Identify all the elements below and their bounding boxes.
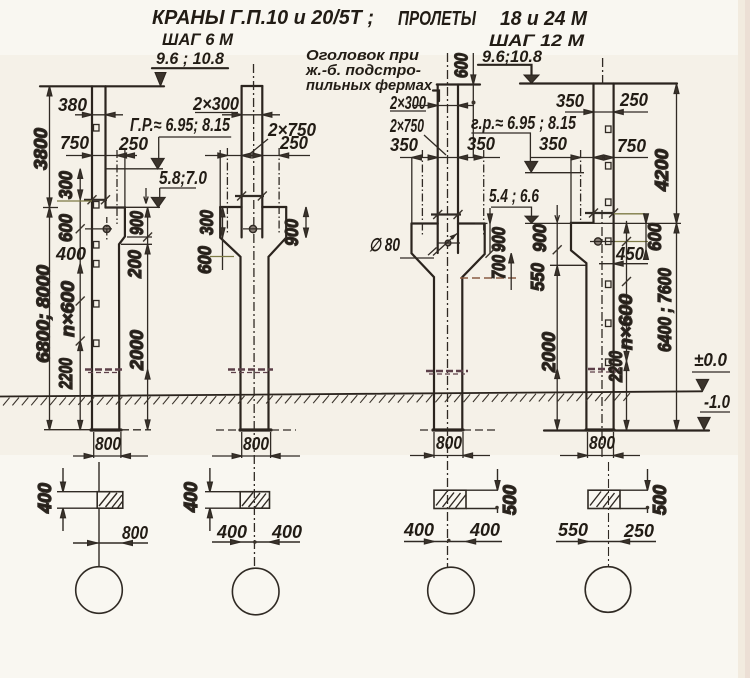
svg-text:9.6;10.8: 9.6;10.8 (482, 47, 543, 66)
ground hatching (3, 393, 630, 405)
svg-text:2×750: 2×750 (389, 116, 424, 136)
right dim n x 600 / 2200 (626, 221, 628, 430)
svg-text:2200: 2200 (56, 358, 76, 390)
svg-text:г.р.≈ 6.95 ; 8.15: г.р.≈ 6.95 ; 8.15 (471, 113, 577, 133)
right dim 6400;7600 (676, 223, 678, 430)
ext line col3 left (400, 257, 434, 259)
section 1: link line (98, 462, 100, 567)
crane rail axes col3 (421, 150, 423, 235)
svg-text:800: 800 (95, 434, 121, 454)
column 3 top line (437, 83, 480, 85)
svg-text:18 и 24 М: 18 и 24 М (500, 8, 588, 30)
svg-text:400: 400 (469, 520, 500, 540)
embed squares col1 (94, 125, 100, 347)
section 4 footing (hatched) (588, 490, 620, 508)
foundation level extension lines (44, 429, 91, 431)
pile circle 1 (76, 567, 123, 614)
splice dashes col4 (588, 368, 619, 371)
pile circle 4 (585, 567, 631, 613)
svg-text:600: 600 (452, 53, 472, 78)
svg-text:750: 750 (617, 136, 646, 156)
right dim 4200 (676, 84, 678, 224)
section 1 footing (hatched) (97, 492, 123, 509)
svg-text:n×600: n×600 (616, 294, 636, 350)
svg-text:900: 900 (127, 211, 147, 235)
svg-text:500: 500 (650, 485, 670, 515)
svg-text:4200: 4200 (652, 149, 672, 192)
svg-text:400: 400 (35, 483, 55, 514)
svg-text:700: 700 (489, 255, 509, 279)
svg-text:6400 ; 7600: 6400 ; 7600 (655, 268, 675, 352)
column 4 top line (520, 82, 677, 84)
foundation base line right (544, 429, 709, 431)
pile circle 2 (232, 568, 279, 615)
svg-text:600: 600 (195, 246, 215, 274)
svg-text:n×600: n×600 (58, 281, 78, 337)
svg-text:400: 400 (403, 520, 434, 540)
svg-text:800: 800 (436, 433, 462, 453)
dim 3800 + 6800;8000 left vertical (49, 86, 51, 430)
svg-text:250: 250 (279, 133, 308, 153)
svg-text:350: 350 (390, 135, 418, 155)
svg-text:800: 800 (589, 433, 615, 453)
svg-text:Г.Р.≈ 6.95; 8.15: Г.Р.≈ 6.95; 8.15 (130, 115, 231, 135)
crane beam tick col3 (431, 213, 461, 215)
left dim line 300/600/400/nx600/2200 (79, 169, 81, 430)
crane rail axis col1 (116, 150, 118, 224)
svg-text:2000: 2000 (127, 330, 147, 371)
svg-text:ж.-б. подстро-: ж.-б. подстро- (305, 63, 421, 79)
column 2 center axis (254, 64, 255, 568)
splice dashes col3 (426, 370, 468, 373)
svg-text:КРАНЫ Г.П.10 и 20/5Т ;: КРАНЫ Г.П.10 и 20/5Т ; (152, 7, 374, 29)
svg-text:800: 800 (243, 434, 269, 454)
column 4 outline (592, 84, 594, 223)
svg-text:ШАГ 6 М: ШАГ 6 М (162, 30, 234, 49)
crane rail axis col4 (580, 150, 582, 223)
svg-text:800: 800 (122, 523, 148, 543)
splice dashes col1 (85, 368, 122, 371)
svg-text:250: 250 (623, 521, 654, 541)
crane beam tick col4 (585, 212, 615, 214)
svg-text:600: 600 (56, 214, 76, 242)
svg-text:2200: 2200 (606, 351, 626, 383)
svg-text:350: 350 (556, 91, 584, 111)
svg-text:550: 550 (558, 520, 588, 540)
crane beam tick col2 (235, 195, 264, 197)
svg-text:5.4 ; 6.6: 5.4 ; 6.6 (489, 186, 540, 206)
svg-text:∅ 80: ∅ 80 (369, 235, 400, 255)
svg-text:550: 550 (528, 263, 548, 291)
dim line col3 crane level (400, 157, 500, 159)
svg-text:600: 600 (645, 223, 665, 251)
dim 900/200 col1 right (147, 208, 149, 284)
svg-text:пильных фермах: пильных фермах (306, 78, 433, 94)
svg-text:400: 400 (271, 522, 302, 542)
column 3 center axis (447, 53, 449, 568)
corbel face extension col1 (124, 150, 126, 208)
svg-text:200: 200 (125, 250, 145, 279)
section 3 footing (hatched) (434, 490, 466, 508)
svg-text:2×300: 2×300 (389, 93, 426, 113)
svg-text:900: 900 (489, 227, 509, 252)
svg-text:300: 300 (197, 210, 217, 235)
svg-text:Оголовок при: Оголовок при (306, 48, 419, 64)
corbel face extension col4 (570, 158, 572, 223)
svg-text:3800: 3800 (31, 128, 51, 170)
svg-text:ПРОЛЕТЫ: ПРОЛЕТЫ (398, 8, 477, 30)
svg-text:2000: 2000 (539, 332, 559, 373)
column 2 top + outline (242, 85, 263, 87)
ground line (0, 391, 702, 396)
svg-text:450: 450 (615, 244, 644, 264)
svg-text:750: 750 (60, 133, 89, 153)
column 1 outline (91, 86, 93, 430)
anchor circle col1 (103, 225, 110, 232)
svg-text:250: 250 (619, 90, 648, 110)
section 2 footing (hatched) (240, 492, 269, 509)
svg-text:350: 350 (539, 134, 567, 154)
section 4 center axis (608, 462, 610, 567)
head face extension col3 (411, 158, 413, 224)
svg-text:2×300: 2×300 (192, 94, 239, 114)
column 3 outline (437, 85, 439, 254)
svg-text:300: 300 (56, 171, 76, 199)
svg-text:6800; 8000: 6800; 8000 (34, 265, 54, 363)
svg-text:400: 400 (216, 522, 247, 542)
splice dashes col2 (228, 368, 273, 371)
svg-text:5.8;7.0: 5.8;7.0 (159, 168, 207, 188)
anchor circle col4 (594, 238, 601, 245)
anchor circle col3 + d80 leader (445, 240, 451, 246)
foundation 800 dims (94, 432, 121, 458)
crane beam tick col1 (84, 199, 107, 201)
svg-text:900: 900 (530, 224, 550, 252)
note leader bracket (433, 91, 439, 102)
dim 2000 col1 (147, 283, 149, 430)
crane rail axes col2 (226, 148, 228, 233)
embed squares col4 (606, 126, 612, 366)
svg-text:900: 900 (282, 219, 302, 246)
svg-text:±0.0: ±0.0 (694, 350, 727, 370)
svg-text:250: 250 (118, 134, 148, 154)
column 4 center axis (602, 58, 604, 86)
svg-text:400: 400 (181, 482, 201, 513)
sepia dashed line below head (460, 277, 516, 279)
svg-text:400: 400 (55, 244, 86, 264)
right dim 600 (645, 222, 647, 252)
column 1 top line (40, 85, 164, 87)
svg-text:500: 500 (500, 485, 520, 515)
pile circle 3 (428, 567, 475, 614)
svg-text:350: 350 (467, 134, 495, 154)
dim line col2 at crane level (205, 155, 310, 157)
svg-text:9.6 ; 10.8: 9.6 ; 10.8 (156, 49, 225, 68)
anchor circle col2 (249, 225, 256, 232)
svg-text:-1.0: -1.0 (704, 392, 730, 412)
